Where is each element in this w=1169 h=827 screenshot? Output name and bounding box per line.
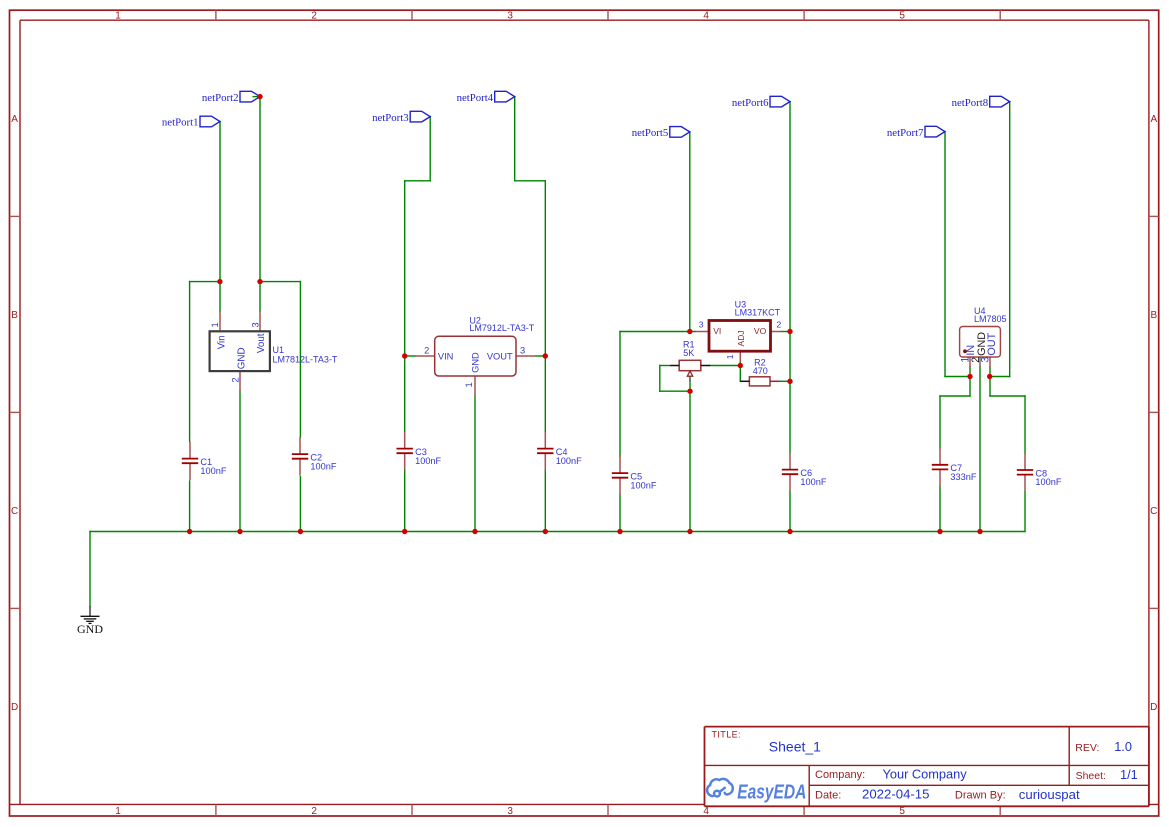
svg-text:3: 3 bbox=[520, 345, 525, 355]
svg-text:1: 1 bbox=[115, 806, 121, 817]
svg-text:Your Company: Your Company bbox=[883, 766, 968, 781]
svg-text:Date:: Date: bbox=[815, 790, 841, 802]
svg-text:U1: U1 bbox=[273, 345, 285, 355]
svg-text:5: 5 bbox=[899, 11, 905, 22]
svg-text:Sheet:: Sheet: bbox=[1076, 770, 1106, 782]
svg-text:100nF: 100nF bbox=[1035, 477, 1061, 487]
svg-text:VO: VO bbox=[754, 326, 767, 336]
svg-text:Vout: Vout bbox=[256, 333, 267, 353]
svg-text:OUT: OUT bbox=[986, 332, 998, 355]
svg-text:A: A bbox=[11, 114, 18, 125]
svg-text:GND: GND bbox=[236, 347, 247, 369]
svg-text:netPort3: netPort3 bbox=[372, 112, 409, 124]
svg-text:333nF: 333nF bbox=[950, 472, 976, 482]
svg-text:2: 2 bbox=[777, 320, 782, 330]
svg-text:4: 4 bbox=[703, 806, 709, 817]
svg-text:1.0: 1.0 bbox=[1114, 739, 1132, 754]
svg-text:100nF: 100nF bbox=[556, 456, 582, 466]
svg-text:1: 1 bbox=[725, 354, 735, 359]
svg-text:VIN: VIN bbox=[438, 351, 454, 361]
svg-text:5: 5 bbox=[899, 806, 905, 817]
svg-text:netPort5: netPort5 bbox=[632, 127, 669, 139]
svg-text:1: 1 bbox=[464, 382, 474, 387]
svg-text:VOUT: VOUT bbox=[487, 351, 513, 361]
svg-text:A: A bbox=[1150, 114, 1157, 125]
svg-text:netPort6: netPort6 bbox=[732, 97, 769, 109]
svg-text:3: 3 bbox=[507, 806, 513, 817]
svg-text:REV:: REV: bbox=[1075, 742, 1099, 754]
svg-text:3: 3 bbox=[979, 357, 991, 363]
svg-text:4: 4 bbox=[703, 11, 709, 22]
svg-text:C: C bbox=[1150, 506, 1157, 517]
svg-text:C: C bbox=[11, 506, 18, 517]
svg-text:TITLE:: TITLE: bbox=[712, 730, 741, 740]
svg-text:GND: GND bbox=[77, 622, 103, 636]
svg-text:EasyEDA: EasyEDA bbox=[737, 782, 806, 804]
svg-text:D: D bbox=[11, 702, 18, 713]
svg-text:100nF: 100nF bbox=[630, 480, 656, 490]
svg-text:3: 3 bbox=[699, 320, 704, 330]
svg-text:100nF: 100nF bbox=[800, 477, 826, 487]
svg-text:GND: GND bbox=[471, 352, 481, 373]
svg-text:470: 470 bbox=[753, 366, 768, 376]
svg-text:netPort4: netPort4 bbox=[457, 92, 494, 104]
svg-text:netPort8: netPort8 bbox=[952, 97, 989, 109]
svg-text:1/1: 1/1 bbox=[1120, 767, 1138, 782]
svg-text:LM7812L-TA3-T: LM7812L-TA3-T bbox=[273, 355, 338, 365]
svg-text:LM7805: LM7805 bbox=[974, 314, 1007, 324]
svg-text:LM317KCT: LM317KCT bbox=[735, 308, 781, 318]
svg-text:100nF: 100nF bbox=[200, 466, 226, 476]
svg-text:LM7912L-TA3-T: LM7912L-TA3-T bbox=[469, 323, 534, 333]
svg-text:netPort7: netPort7 bbox=[887, 127, 924, 139]
svg-text:100nF: 100nF bbox=[310, 461, 336, 471]
svg-text:2: 2 bbox=[311, 806, 317, 817]
svg-text:1: 1 bbox=[115, 11, 121, 22]
svg-text:2: 2 bbox=[424, 345, 429, 355]
svg-text:netPort1: netPort1 bbox=[162, 117, 199, 129]
svg-text:2: 2 bbox=[311, 11, 317, 22]
svg-text:Vin: Vin bbox=[216, 335, 227, 349]
svg-text:2022-04-15: 2022-04-15 bbox=[862, 787, 929, 802]
svg-text:D: D bbox=[1150, 702, 1157, 713]
svg-text:netPort2: netPort2 bbox=[202, 92, 239, 104]
svg-text:5K: 5K bbox=[683, 348, 694, 358]
svg-text:Company:: Company: bbox=[815, 769, 865, 781]
svg-text:VI: VI bbox=[713, 326, 721, 336]
svg-text:B: B bbox=[11, 310, 18, 321]
svg-text:2: 2 bbox=[231, 377, 241, 382]
svg-text:B: B bbox=[1150, 310, 1157, 321]
svg-text:Drawn By:: Drawn By: bbox=[955, 790, 1006, 802]
svg-text:Sheet_1: Sheet_1 bbox=[769, 738, 821, 754]
svg-text:1: 1 bbox=[210, 322, 220, 327]
svg-text:100nF: 100nF bbox=[415, 456, 441, 466]
svg-text:curiouspat: curiouspat bbox=[1019, 787, 1080, 802]
svg-text:3: 3 bbox=[250, 322, 260, 327]
svg-text:ADJ: ADJ bbox=[736, 330, 746, 346]
svg-text:3: 3 bbox=[507, 11, 513, 22]
